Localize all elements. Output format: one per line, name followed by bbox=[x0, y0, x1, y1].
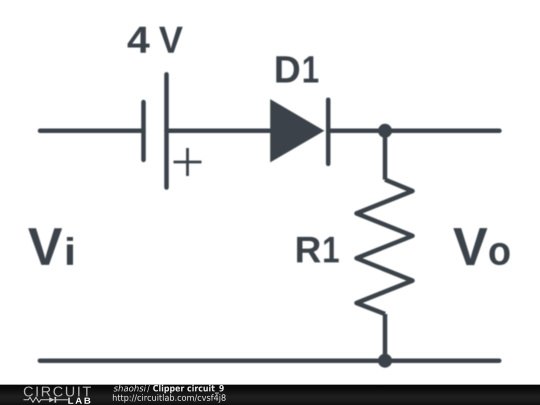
label R1 bbox=[297, 237, 339, 263]
footer title: shaohsi / Clipper circuit_9 bbox=[114, 385, 224, 394]
CircuitLab logo squiggle: wire to LAB bbox=[56, 399, 68, 401]
wire: battery to diode anode bbox=[167, 129, 272, 134]
wire: node down to resistor top bbox=[383, 131, 388, 180]
resistor R1 bbox=[357, 180, 413, 314]
footer bar bbox=[0, 385, 540, 405]
wire: diode cathode to output bbox=[328, 129, 499, 134]
CircuitLab logo word CIRCUIT bbox=[24, 386, 91, 396]
wire: bottom rail bbox=[40, 358, 499, 363]
label 4 V (battery value) bbox=[128, 27, 183, 53]
CircuitLab logo squiggle: wire + resistor bbox=[24, 397, 50, 402]
wire: resistor bottom to bottom rail bbox=[383, 314, 388, 361]
node: R1 bottom / bottom rail junction bbox=[378, 354, 392, 368]
footer url text: circuitlab.com/cvsf4j8 bbox=[113, 394, 226, 403]
battery V1 (4 V source) bbox=[144, 74, 202, 187]
label D1 bbox=[276, 56, 318, 82]
label Vo (output node) bbox=[453, 228, 509, 265]
wire: input lead to battery bbox=[40, 129, 144, 134]
CircuitLab logo word LAB bbox=[68, 398, 90, 404]
diode D1 bbox=[270, 99, 328, 164]
CircuitLab logo squiggle: diode cathode bar bbox=[54, 397, 56, 403]
node: diode cathode / R1 top junction bbox=[378, 124, 392, 138]
label Vi (input node) bbox=[28, 228, 73, 265]
CircuitLab logo squiggle: diode bbox=[49, 397, 54, 402]
